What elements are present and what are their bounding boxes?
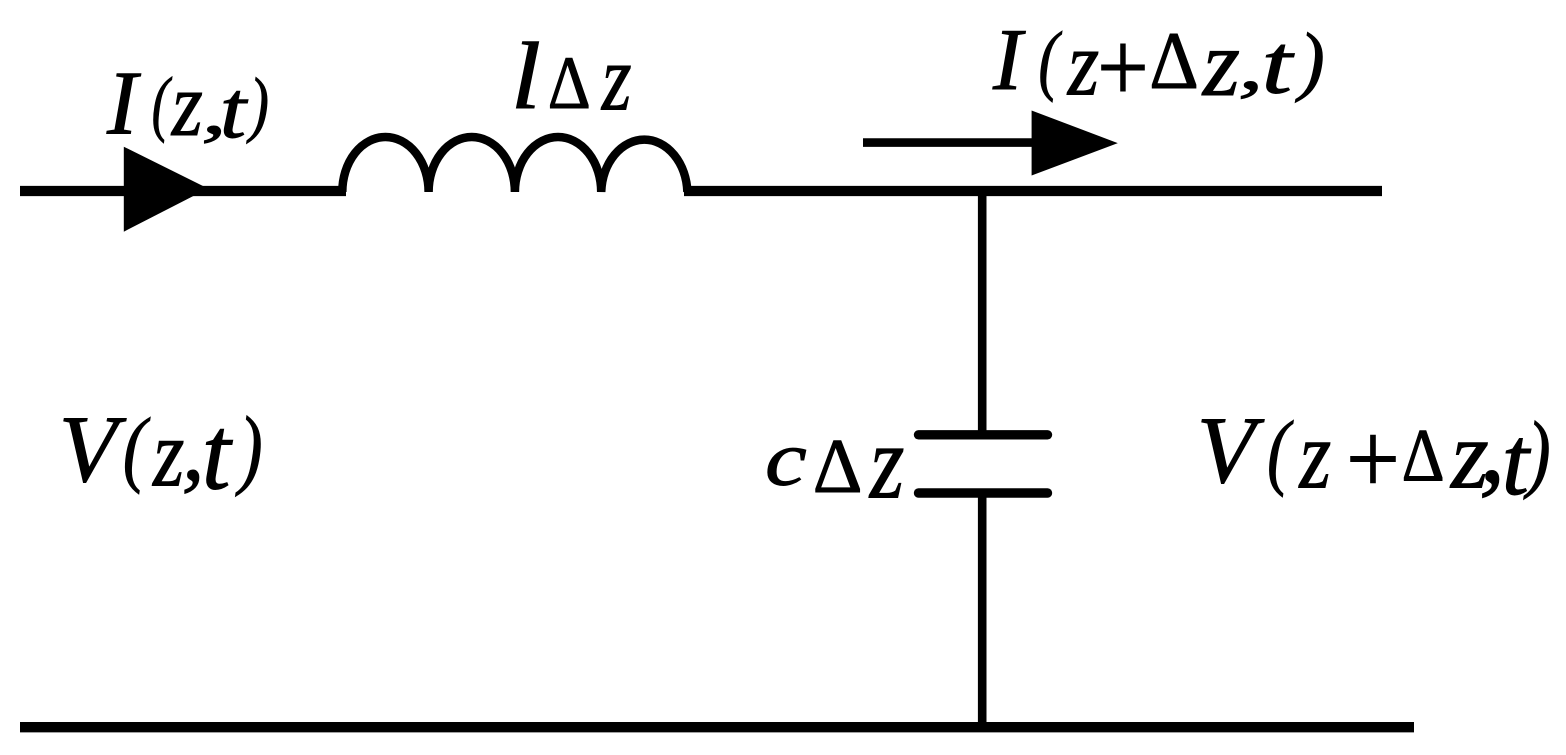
svg-text:V: V [59,396,127,502]
svg-text:Δ: Δ [1402,414,1445,497]
svg-text:V: V [1197,397,1265,503]
svg-text:z: z [170,54,203,155]
svg-text:Δ: Δ [813,423,863,509]
svg-text:Δ: Δ [548,42,591,125]
svg-text:z: z [151,399,184,506]
svg-text:+: + [1346,403,1400,516]
svg-text:(: ( [123,401,151,495]
wire: capacitor to bottom rail [978,494,987,727]
svg-text:): ) [246,63,269,144]
svg-text:(: ( [1038,16,1062,103]
svg-text:): ) [1523,403,1551,500]
svg-text:I: I [106,53,141,154]
svg-text:): ) [235,400,263,498]
current direction arrow shaft for I(z+&#916;z,t) [863,138,1040,147]
svg-text:l: l [511,23,541,129]
current direction arrow head for I(z+&#916;z,t) [1032,111,1118,176]
wire: top rail left segment [20,186,346,196]
svg-text:): ) [1295,17,1325,103]
inductor l&#916;z (series inductance of line section) [342,137,687,192]
svg-text:z: z [1298,401,1331,508]
wire: bottom rail [20,722,1414,732]
svg-text:Δ: Δ [1149,16,1199,106]
svg-text:z: z [1201,10,1240,116]
svg-text:z: z [1066,13,1099,115]
svg-text:(: ( [152,63,173,144]
svg-text:I: I [992,11,1026,108]
capacitor c&#916;z bottom plate [919,488,1048,497]
svg-text:,: , [1238,30,1264,104]
svg-text:z: z [600,26,631,131]
svg-text:(: ( [1267,404,1294,498]
svg-text:c: c [765,415,807,501]
svg-text:+: + [1097,11,1149,123]
svg-text:t: t [220,64,249,155]
svg-text:z: z [868,404,904,521]
current direction arrow for I(z,t) [124,147,208,232]
svg-text:t: t [1261,18,1295,112]
wire: top rail right segment [684,186,1382,196]
node: junction of top rail and capacitor branch [978,191,987,433]
svg-text:t: t [202,395,234,511]
capacitor c&#916;z top plate [919,430,1048,439]
